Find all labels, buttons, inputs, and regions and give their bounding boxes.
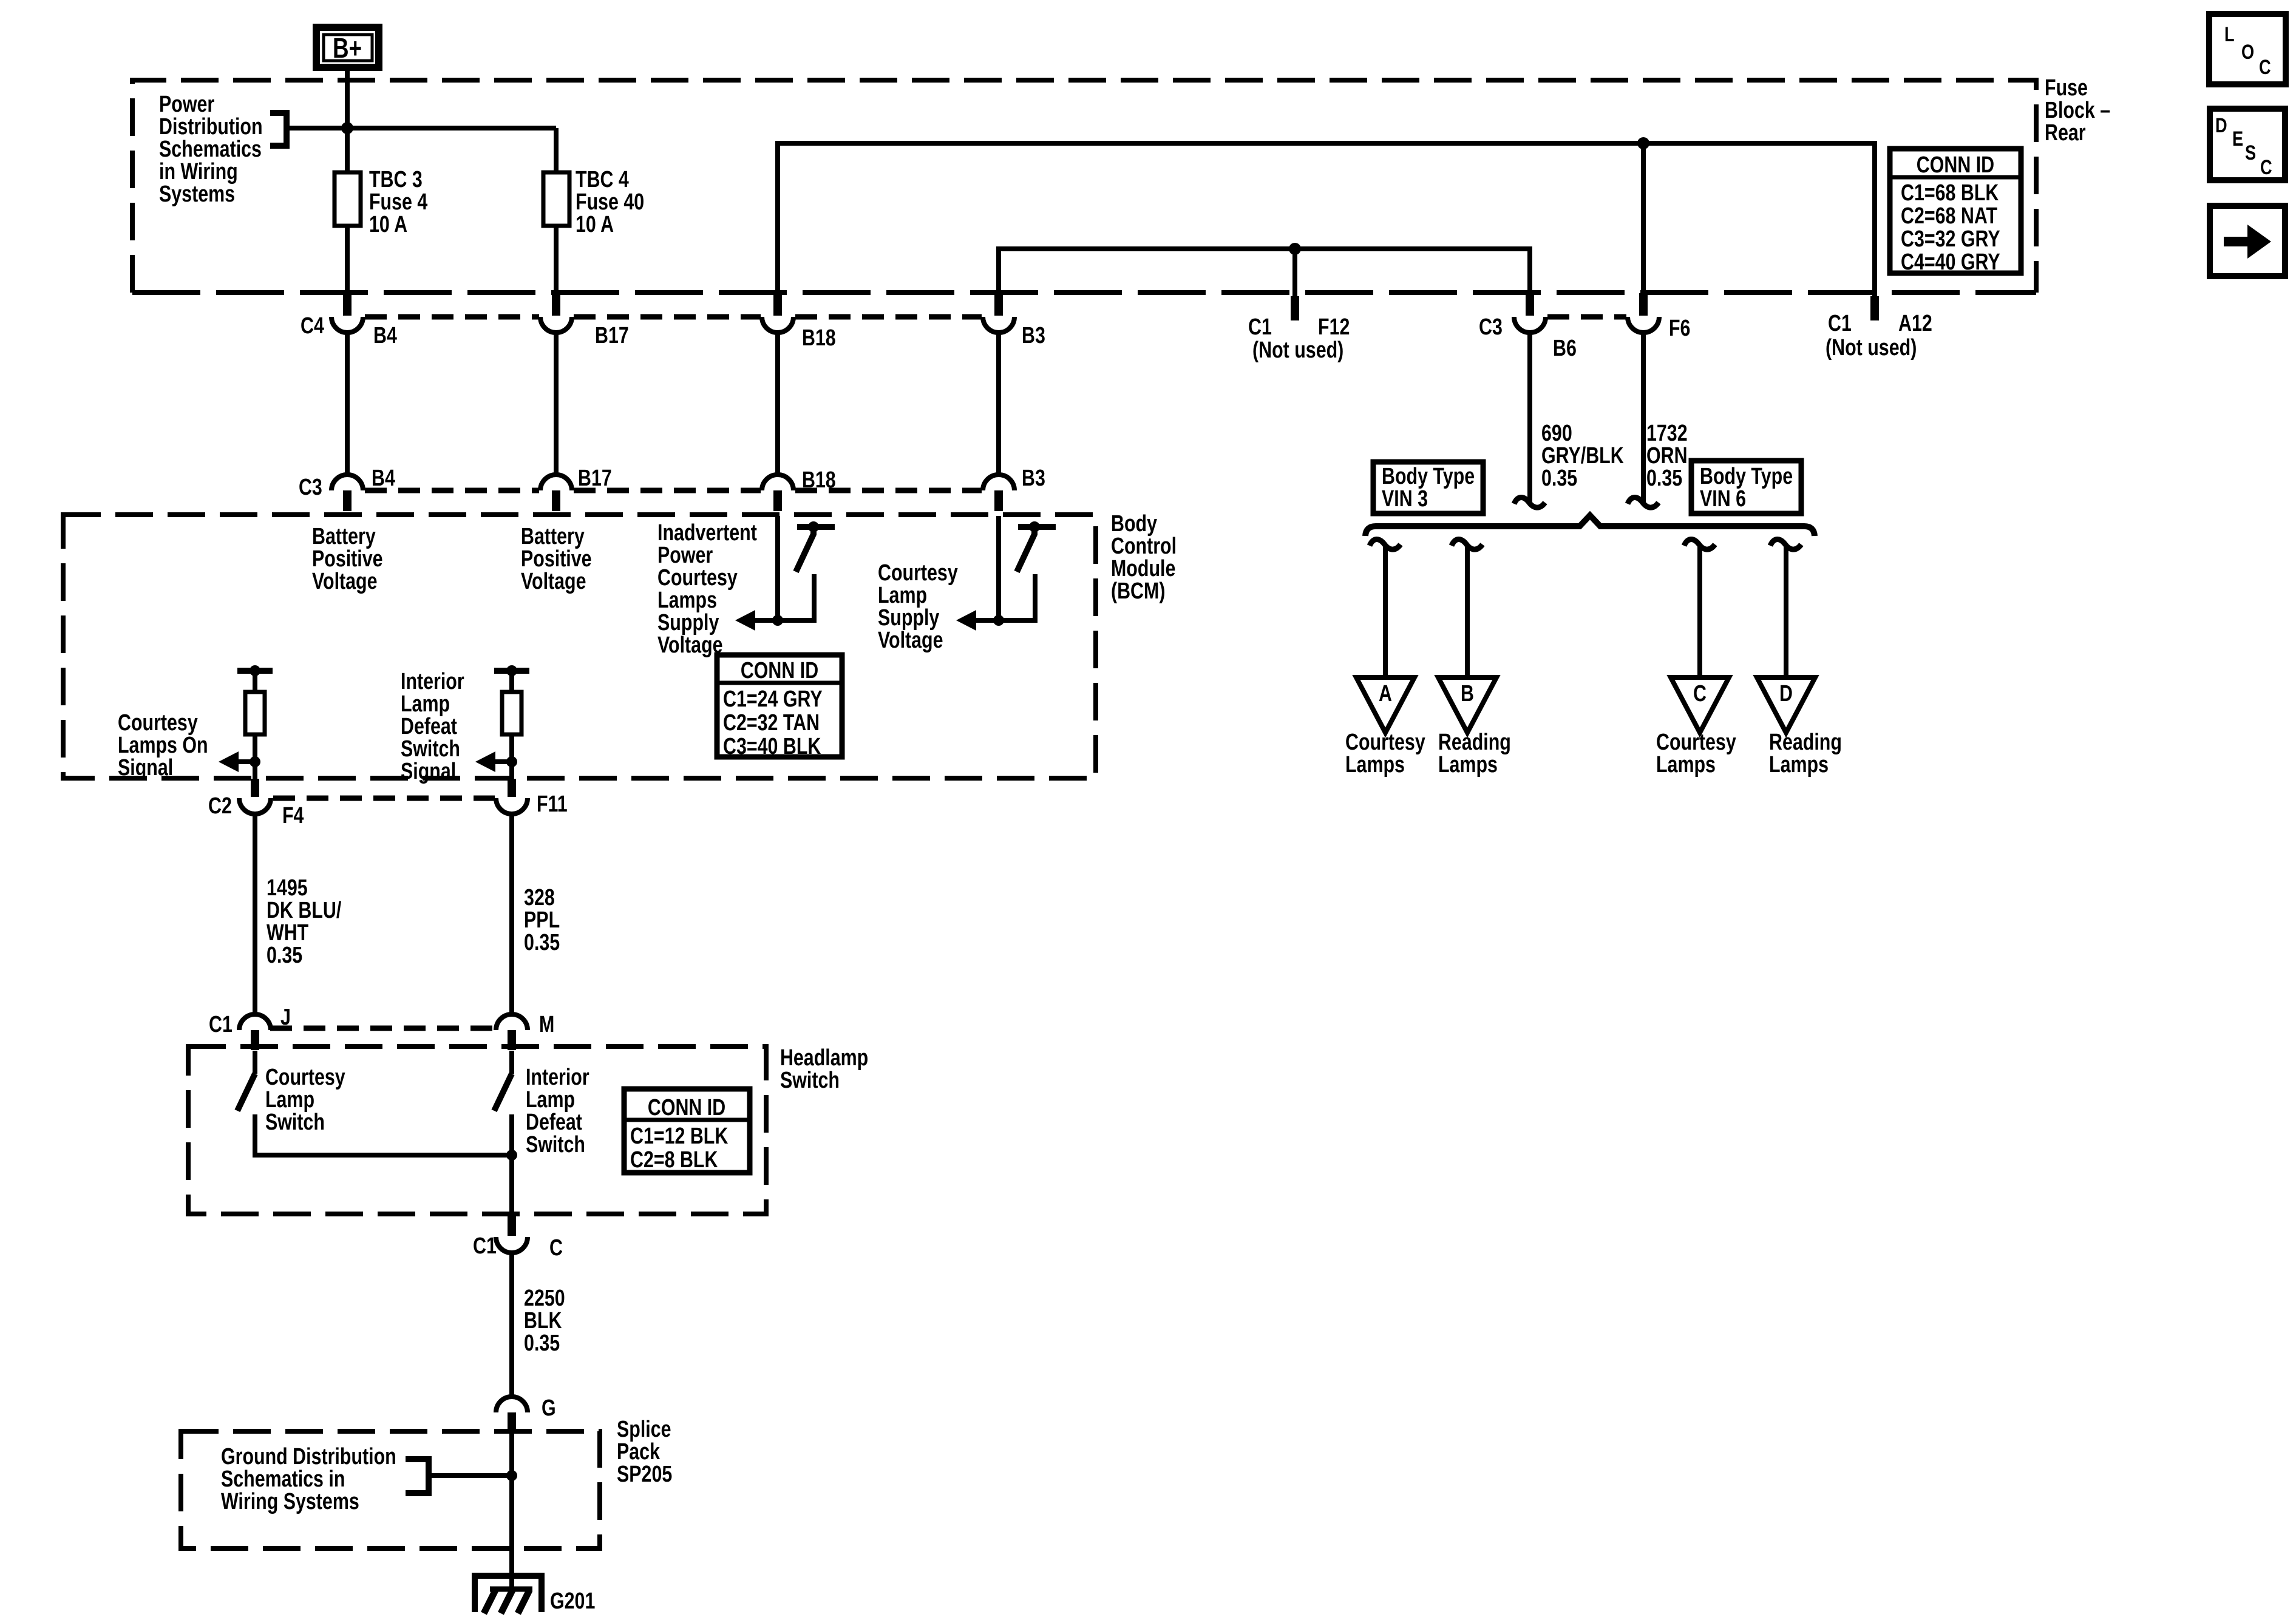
svg-text:TBC 4: TBC 4 xyxy=(576,167,629,192)
wire TBC4 to connector B17 xyxy=(554,226,559,297)
off-page triangle C xyxy=(1671,677,1729,733)
svg-text:C: C xyxy=(1693,681,1707,707)
connector C1 A12 not used pin xyxy=(1870,296,1879,320)
svg-text:B3: B3 xyxy=(1022,466,1045,491)
svg-text:C2=68 NAT: C2=68 NAT xyxy=(1901,203,1997,229)
svg-text:VIN 3: VIN 3 xyxy=(1382,486,1428,512)
wire B18 to B18 (inadvertent power) xyxy=(775,333,780,475)
bracket power distribution reference xyxy=(270,113,287,146)
svg-text:Lamp: Lamp xyxy=(878,583,927,608)
svg-text:Body: Body xyxy=(1111,511,1157,537)
svg-text:Interior: Interior xyxy=(401,669,464,694)
svg-text:B4: B4 xyxy=(372,466,395,491)
BCM resistor branch 1 terminal bar xyxy=(237,665,273,676)
svg-text:(BCM): (BCM) xyxy=(1111,578,1165,604)
switch 2 blade xyxy=(1017,527,1034,572)
svg-text:TBC 3: TBC 3 xyxy=(369,167,423,192)
svg-text:Fuse 40: Fuse 40 xyxy=(576,189,644,215)
svg-text:C: C xyxy=(549,1235,563,1261)
wire branch down to fuse TBC4 xyxy=(554,128,559,172)
svg-text:GRY/BLK: GRY/BLK xyxy=(1541,443,1624,469)
svg-text:F6: F6 xyxy=(1669,316,1690,341)
svg-text:CONN ID: CONN ID xyxy=(648,1095,725,1120)
svg-text:Lamp: Lamp xyxy=(526,1087,575,1113)
switch 1 blade xyxy=(796,527,813,572)
svg-text:Voltage: Voltage xyxy=(521,569,586,594)
connector F11 xyxy=(496,779,528,814)
in-line connector row C2/F4 F11 dotted harness line xyxy=(273,796,495,801)
in-line connector row C4/B4 B17 B18 B3 dotted harness line xyxy=(365,314,1626,320)
wire F6 riser to line A xyxy=(1641,143,1646,297)
svg-text:J: J xyxy=(280,1005,291,1030)
junction dot interior lamp defeat switch signal xyxy=(506,756,517,767)
svg-text:Fuse 4: Fuse 4 xyxy=(369,189,427,215)
svg-text:Lamps: Lamps xyxy=(657,588,717,613)
svg-text:B18: B18 xyxy=(802,467,836,493)
BCM internal wire B18 down to junction xyxy=(775,516,780,620)
svg-text:A: A xyxy=(1379,681,1392,707)
connector G splice pack xyxy=(496,1397,528,1432)
svg-text:Battery: Battery xyxy=(521,524,585,549)
junction dot headlamp switch common xyxy=(506,1150,517,1161)
resistor R2 (interior lamp defeat switch signal pull-up) xyxy=(502,692,521,734)
connector B18 (row 1) xyxy=(762,293,793,333)
wire B3 feed line (to B6) xyxy=(999,249,1530,297)
svg-text:Voltage: Voltage xyxy=(878,628,943,653)
svg-text:Schematics in: Schematics in xyxy=(221,1466,345,1492)
svg-text:0.35: 0.35 xyxy=(267,943,302,968)
svg-text:328: 328 xyxy=(524,885,555,910)
junction dot switch1 output xyxy=(772,615,783,626)
svg-text:Courtesy: Courtesy xyxy=(1656,730,1736,755)
svg-text:G201: G201 xyxy=(550,1588,595,1614)
svg-text:C2=8 BLK: C2=8 BLK xyxy=(630,1147,718,1173)
wire circuit 328 PPL xyxy=(509,814,514,1015)
svg-text:Lamp: Lamp xyxy=(401,691,450,717)
svg-text:Defeat: Defeat xyxy=(526,1110,582,1135)
wire bracket to splice xyxy=(429,1473,512,1478)
off-page triangle D xyxy=(1757,677,1815,733)
fuse block rear dashed box xyxy=(132,80,2036,293)
svg-text:M: M xyxy=(539,1012,554,1037)
svg-text:Switch: Switch xyxy=(265,1110,325,1135)
svg-text:B4: B4 xyxy=(373,323,397,348)
svg-text:Voltage: Voltage xyxy=(657,632,723,658)
wire common to connector C1 C xyxy=(509,1155,514,1216)
svg-text:(Not used): (Not used) xyxy=(1252,337,1343,363)
svg-text:Switch: Switch xyxy=(401,736,460,762)
body type VIN 6 box xyxy=(1691,461,1801,514)
CONN ID table fuse block rear xyxy=(1890,149,2021,273)
hook to reading lamps B wire xyxy=(1452,539,1483,549)
svg-text:C4=40 GRY: C4=40 GRY xyxy=(1901,249,2000,275)
wire F6 circuit 1732 ORN xyxy=(1641,333,1646,504)
brace body type selector xyxy=(1365,515,1815,536)
svg-text:0.35: 0.35 xyxy=(524,1331,560,1356)
svg-text:B6: B6 xyxy=(1553,336,1577,361)
CONN ID table BCM xyxy=(717,655,842,757)
fuse TBC 4 Fuse 40 10A xyxy=(543,172,569,226)
junction dot splice SP205 xyxy=(506,1470,517,1481)
svg-text:DK BLU/: DK BLU/ xyxy=(267,898,342,923)
svg-text:Signal: Signal xyxy=(401,759,456,784)
junction dot switch2 output xyxy=(993,615,1004,626)
wire R1 to junction xyxy=(253,734,257,779)
svg-text:(Not used): (Not used) xyxy=(1826,335,1917,361)
svg-text:B3: B3 xyxy=(1022,323,1045,348)
svg-text:Ground Distribution: Ground Distribution xyxy=(221,1444,396,1470)
svg-text:SP205: SP205 xyxy=(617,1462,672,1487)
courtesy lamp switch blade xyxy=(237,1074,255,1111)
svg-text:Control: Control xyxy=(1111,534,1177,559)
svg-text:Voltage: Voltage xyxy=(312,569,378,594)
svg-text:Courtesy: Courtesy xyxy=(118,710,198,736)
svg-text:S: S xyxy=(2245,141,2256,164)
arrow courtesy lamp supply voltage xyxy=(956,610,999,631)
svg-text:Switch: Switch xyxy=(780,1068,840,1093)
connector B3 (row 1) xyxy=(983,293,1014,333)
wire circuit 2250 BLK xyxy=(509,1253,514,1398)
connector C4 B4 xyxy=(331,293,363,333)
hook end of F6 wire xyxy=(1628,497,1659,507)
svg-text:ORN: ORN xyxy=(1646,443,1688,469)
svg-text:B17: B17 xyxy=(595,323,629,348)
svg-text:2250: 2250 xyxy=(524,1286,565,1311)
svg-text:D: D xyxy=(2215,114,2227,137)
svg-text:B+: B+ xyxy=(333,32,362,64)
svg-text:D: D xyxy=(1779,681,1793,707)
connector B3 (row 2) xyxy=(983,475,1014,511)
svg-text:Lamps: Lamps xyxy=(1656,752,1716,778)
svg-text:Systems: Systems xyxy=(159,181,235,207)
splice pack SP205 dashed box xyxy=(181,1431,600,1548)
interior lamp defeat switch wire from M xyxy=(509,1051,514,1074)
courtesy lamp switch wire from J xyxy=(253,1051,257,1074)
svg-text:10 A: 10 A xyxy=(576,212,614,237)
CONN ID table headlamp switch xyxy=(624,1089,750,1173)
svg-text:C1: C1 xyxy=(1828,311,1852,336)
connector C1 C xyxy=(496,1215,528,1253)
svg-text:Power: Power xyxy=(159,92,214,117)
svg-text:F11: F11 xyxy=(537,792,568,817)
svg-text:Interior: Interior xyxy=(526,1065,589,1090)
in-line connector row 2 dotted harness line xyxy=(365,488,982,493)
svg-text:B17: B17 xyxy=(578,466,612,491)
svg-text:C1=68 BLK: C1=68 BLK xyxy=(1901,180,1999,206)
svg-text:G: G xyxy=(542,1395,556,1421)
svg-text:Inadvertent: Inadvertent xyxy=(657,520,757,546)
svg-text:CONN ID: CONN ID xyxy=(1917,152,1994,178)
wire bracket to TBC4 branch xyxy=(287,126,556,131)
junction dot F12 on line B xyxy=(1289,243,1301,255)
hook to courtesy lamps A wire xyxy=(1370,539,1401,549)
courtesy lamp switch lower contact xyxy=(255,1114,512,1155)
svg-text:C: C xyxy=(2260,155,2272,179)
connector B17 (row 2) xyxy=(540,475,572,511)
svg-text:Supply: Supply xyxy=(657,610,719,636)
arrow courtesy lamps on signal xyxy=(219,751,255,772)
svg-text:0.35: 0.35 xyxy=(1646,466,1682,491)
svg-text:Block –: Block – xyxy=(2045,98,2110,123)
svg-text:Pack: Pack xyxy=(617,1439,661,1465)
svg-text:A12: A12 xyxy=(1898,311,1932,336)
svg-text:Rear: Rear xyxy=(2045,120,2086,146)
hook to courtesy lamps C wire xyxy=(1684,539,1715,549)
resistor R1 (courtesy lamps on signal pull-up) xyxy=(245,692,265,734)
svg-text:F12: F12 xyxy=(1318,314,1350,340)
wire TBC3 to connector C4 B4 xyxy=(345,226,350,297)
svg-text:Defeat: Defeat xyxy=(401,714,457,739)
connector B18 (row 2) xyxy=(762,475,793,511)
svg-text:C1: C1 xyxy=(209,1012,233,1037)
svg-text:C3=32 GRY: C3=32 GRY xyxy=(1901,226,2000,252)
hook end of B6 wire xyxy=(1514,497,1545,507)
svg-text:Lamps: Lamps xyxy=(1769,752,1829,778)
svg-text:PPL: PPL xyxy=(524,907,560,933)
svg-text:Lamp: Lamp xyxy=(265,1087,314,1113)
connector C3 B4 (row 2) xyxy=(331,475,363,511)
svg-text:O: O xyxy=(2241,40,2254,64)
arrow inadvertent power courtesy lamps supply voltage xyxy=(735,610,778,631)
hook to reading lamps D wire xyxy=(1770,539,1801,549)
svg-text:1732: 1732 xyxy=(1646,421,1688,446)
svg-text:Headlamp: Headlamp xyxy=(780,1045,868,1071)
svg-text:Switch: Switch xyxy=(526,1132,585,1158)
svg-text:BLK: BLK xyxy=(524,1308,562,1334)
svg-text:Battery: Battery xyxy=(312,524,376,549)
connector C2 F4 xyxy=(239,779,271,814)
svg-text:Courtesy: Courtesy xyxy=(1345,730,1425,755)
wire to triangle B xyxy=(1465,547,1470,677)
svg-text:Splice: Splice xyxy=(617,1417,671,1442)
svg-text:C2=32 TAN: C2=32 TAN xyxy=(723,710,820,736)
junction dot F6 on line A xyxy=(1637,137,1649,149)
svg-text:B: B xyxy=(1461,681,1474,707)
svg-text:C4: C4 xyxy=(301,313,324,339)
svg-text:C3: C3 xyxy=(299,475,322,500)
off-page triangle B xyxy=(1438,677,1496,733)
junction dot courtesy lamps on signal xyxy=(250,756,260,767)
wire bar to resistor R2 xyxy=(509,671,514,692)
svg-text:Fuse: Fuse xyxy=(2045,75,2088,101)
svg-text:C2: C2 xyxy=(208,793,232,819)
wire B18 feed line (to A12) xyxy=(778,143,1875,299)
svg-text:1495: 1495 xyxy=(267,875,308,901)
BCM internal wire B3 down to junction xyxy=(996,516,1001,620)
bracket ground distribution reference xyxy=(406,1459,429,1493)
wire to triangle A xyxy=(1383,547,1388,677)
svg-text:C: C xyxy=(2259,55,2271,79)
wire bar to resistor R1 xyxy=(253,671,257,692)
body type VIN 3 box xyxy=(1373,462,1483,514)
junction dot B+ node xyxy=(341,122,353,134)
connector B17 (row 1) xyxy=(540,293,572,333)
arrow interior lamp defeat switch signal xyxy=(475,751,512,772)
svg-text:Body Type: Body Type xyxy=(1700,464,1793,489)
svg-text:690: 690 xyxy=(1541,421,1572,446)
BCM resistor branch 2 terminal bar xyxy=(494,665,529,676)
wire R2 to junction xyxy=(509,734,514,779)
switch 2 courtesy lamp: contact bar xyxy=(1018,521,1056,532)
headlamp switch dashed box xyxy=(188,1046,766,1214)
svg-text:VIN 6: VIN 6 xyxy=(1700,486,1746,512)
svg-text:C3: C3 xyxy=(1479,314,1503,340)
connector M xyxy=(496,1014,528,1050)
svg-text:Lamps: Lamps xyxy=(1438,752,1498,778)
wire B3 to B3 (courtesy lamp supply) xyxy=(996,333,1001,475)
svg-text:WHT: WHT xyxy=(267,920,308,946)
ground symbol G201 xyxy=(475,1576,542,1613)
svg-text:Lamps On: Lamps On xyxy=(118,733,208,758)
switch 2 lower contact wire xyxy=(999,574,1035,620)
LOC legend box xyxy=(2209,14,2286,84)
interior lamp defeat switch blade xyxy=(494,1074,512,1111)
svg-text:Reading: Reading xyxy=(1769,730,1842,755)
svg-text:E: E xyxy=(2232,127,2243,151)
svg-text:0.35: 0.35 xyxy=(524,930,560,955)
svg-text:L: L xyxy=(2224,22,2235,46)
svg-text:Courtesy: Courtesy xyxy=(265,1065,345,1090)
wire circuit 1495 DK BLU/WHT xyxy=(253,814,257,1015)
svg-text:Courtesy: Courtesy xyxy=(657,565,738,591)
svg-text:B18: B18 xyxy=(802,325,836,351)
wire splice to ground G201 xyxy=(509,1433,514,1589)
DESC legend box xyxy=(2210,109,2285,180)
svg-text:10 A: 10 A xyxy=(369,212,407,237)
body control module BCM dashed box xyxy=(63,515,1096,778)
connector C3 B6 xyxy=(1514,293,1546,333)
svg-text:Module: Module xyxy=(1111,556,1175,581)
svg-text:in Wiring: in Wiring xyxy=(159,159,238,185)
switch 1 lower contact wire xyxy=(778,574,814,620)
svg-text:C1=24 GRY: C1=24 GRY xyxy=(723,686,823,712)
svg-text:Signal: Signal xyxy=(118,755,173,781)
svg-text:0.35: 0.35 xyxy=(1541,466,1577,491)
connector C1 F12 not used pin xyxy=(1291,296,1299,320)
svg-text:Supply: Supply xyxy=(878,605,939,631)
svg-text:Distribution: Distribution xyxy=(159,114,263,140)
svg-text:C1: C1 xyxy=(1248,314,1272,340)
svg-text:Positive: Positive xyxy=(312,546,383,572)
svg-text:Lamps: Lamps xyxy=(1345,752,1405,778)
wire B17 to B17 (battery positive 2) xyxy=(554,333,559,475)
wire F12 drop from line B xyxy=(1292,249,1297,299)
switch 1 inadvertent power: contact bar xyxy=(797,521,835,532)
svg-text:Wiring Systems: Wiring Systems xyxy=(221,1489,359,1514)
off-page triangle A xyxy=(1356,677,1415,733)
svg-text:Positive: Positive xyxy=(521,546,592,572)
wire to triangle C xyxy=(1697,547,1702,677)
svg-text:Courtesy: Courtesy xyxy=(878,560,958,586)
interior lamp defeat switch lower contact xyxy=(509,1114,514,1155)
in-line connector row C1/J M dotted harness line xyxy=(270,1026,498,1031)
svg-text:F4: F4 xyxy=(282,803,304,829)
wire to triangle D xyxy=(1784,547,1788,677)
power feed B+ box xyxy=(316,27,379,67)
svg-text:C1=12 BLK: C1=12 BLK xyxy=(630,1124,728,1149)
svg-text:C1: C1 xyxy=(473,1233,497,1259)
fuse TBC 3 Fuse 4 10A xyxy=(335,172,361,226)
connector C1 J xyxy=(239,1014,271,1050)
svg-text:Reading: Reading xyxy=(1438,730,1511,755)
svg-text:Power: Power xyxy=(657,543,713,568)
next-page arrow box xyxy=(2210,206,2285,276)
wire B6 circuit 690 GRY/BLK xyxy=(1527,333,1532,504)
svg-text:C3=40 BLK: C3=40 BLK xyxy=(723,734,821,759)
svg-text:CONN ID: CONN ID xyxy=(741,658,818,683)
wire B+ to fuse TBC3 xyxy=(345,71,350,172)
svg-text:Schematics: Schematics xyxy=(159,137,262,162)
wire C4 to C3 (battery positive 1) xyxy=(345,333,350,475)
connector F6 xyxy=(1628,293,1659,333)
svg-text:Body Type: Body Type xyxy=(1382,464,1475,489)
